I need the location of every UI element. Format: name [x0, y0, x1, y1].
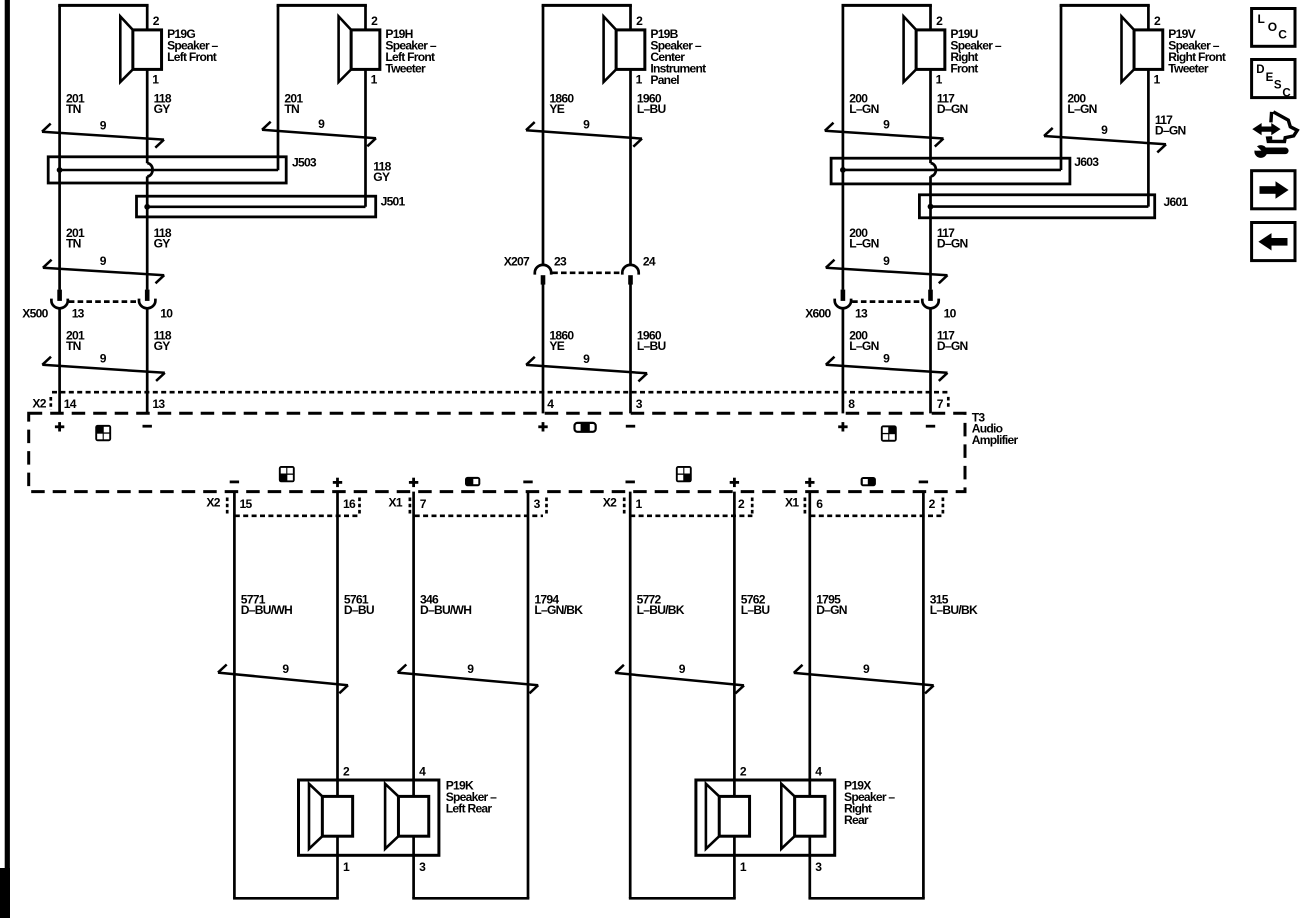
wire loop left rear B: [412, 897, 529, 900]
svg-text:9: 9: [679, 662, 686, 676]
amp plus right front: [838, 422, 847, 431]
svg-text:2: 2: [1154, 14, 1161, 28]
connector X207 pin 24: [622, 265, 638, 285]
label P19V title: [1168, 27, 1226, 76]
speaker icon front-left: [95, 425, 111, 441]
button next arrow: [1252, 171, 1295, 209]
connector X600 pin 13: [835, 290, 851, 309]
connector X2 right tick: [947, 397, 950, 409]
svg-text:1: 1: [636, 497, 643, 511]
svg-text:X207: X207: [504, 255, 530, 269]
label amp pin 7 top: [937, 397, 944, 411]
speaker P19G: [120, 16, 161, 82]
label amp pin 8 top: [848, 397, 855, 411]
splice J503: [48, 157, 286, 183]
svg-text:13: 13: [152, 397, 165, 411]
value label 117 D-GN row1 P19U: [937, 91, 968, 116]
value label 1960 L-BU row1 P19B: [637, 91, 666, 116]
svg-text:9: 9: [100, 118, 107, 132]
value label 200 L-GN row1 P19U: [849, 91, 878, 116]
value label 346 D–BU/WH: [420, 592, 471, 617]
label X1 bottom-left: [389, 496, 403, 510]
svg-text:9: 9: [282, 662, 289, 676]
twisted pair 9 row1 P19V: [1044, 123, 1166, 153]
svg-text:D–GN: D–GN: [1155, 124, 1186, 138]
wire top loop P19H: [277, 4, 367, 7]
value label 118 GY at J501 P19H: [373, 159, 391, 184]
label pin 24: [643, 255, 656, 269]
label X1 bottom-right: [785, 496, 799, 510]
connector X600 pin 10: [922, 290, 938, 309]
wire 1795 D-GN: [808, 492, 811, 899]
svg-text:4: 4: [419, 764, 426, 778]
label J503: [292, 156, 317, 170]
svg-text:D–BU/WH: D–BU/WH: [420, 603, 471, 617]
value label 1794 L–GN/BK: [534, 592, 583, 617]
value label 118 GY row3: [154, 329, 172, 354]
svg-text:J501: J501: [381, 195, 406, 209]
twisted pair 9 row1 P19H: [262, 117, 376, 146]
speaker P19B: [604, 16, 645, 82]
speaker icon front-right: [881, 425, 897, 441]
label P19K title: [446, 778, 497, 815]
wire 315 L-BU/BK: [922, 492, 925, 899]
svg-text:3: 3: [815, 860, 822, 874]
svg-text:13: 13: [72, 307, 85, 321]
amp plus left rear 2: [409, 478, 418, 487]
value label 118 GY row2 P19G: [154, 226, 172, 251]
svg-text:D–GN: D–GN: [937, 102, 968, 116]
wire 346 D-BU/WH: [412, 492, 415, 899]
amp minus right rear 2: [919, 481, 928, 484]
svg-text:9: 9: [883, 254, 890, 268]
wire top loop P19G: [58, 4, 148, 7]
amp minus left front: [143, 425, 152, 428]
value label 5762 L–BU: [741, 592, 770, 617]
wire 118 GY P19H right: [364, 5, 367, 206]
pin 1 label P19U: [936, 73, 943, 87]
svg-text:10: 10: [944, 307, 957, 321]
svg-text:1: 1: [371, 73, 378, 87]
svg-text:L–GN: L–GN: [849, 339, 878, 353]
label amp pin 16 bottom: [343, 497, 356, 511]
label J501: [381, 195, 406, 209]
svg-text:GY: GY: [373, 170, 390, 184]
pin 1 label P19H: [371, 73, 378, 87]
svg-text:Front: Front: [950, 62, 978, 76]
label amp pin 3 bottom: [534, 497, 541, 511]
svg-text:J603: J603: [1074, 155, 1099, 169]
label pin 23: [554, 255, 567, 269]
svg-text:8: 8: [848, 397, 855, 411]
svg-text:Panel: Panel: [650, 73, 679, 87]
svg-text:9: 9: [863, 662, 870, 676]
speaker P19K right driver: [385, 784, 429, 849]
svg-text:J503: J503: [292, 156, 317, 170]
wire 200 L-GN P19U left: [842, 5, 845, 413]
svg-text:6: 6: [816, 497, 823, 511]
svg-text:2: 2: [343, 764, 350, 778]
svg-text:GY: GY: [154, 237, 171, 251]
twisted pair 9 row1 P19U: [825, 118, 944, 147]
speaker P19X right driver: [781, 784, 825, 849]
value label 117 D-GN row3: [937, 329, 968, 354]
svg-text:L–BU/BK: L–BU/BK: [930, 603, 978, 617]
pin labels P19X: [740, 764, 822, 874]
svg-text:Tweeter: Tweeter: [1168, 62, 1209, 76]
connector X1 bottom-right bracket: [805, 498, 943, 516]
connector X500 pin 13: [51, 290, 67, 309]
wire 1794 L-GN/BK: [527, 492, 530, 899]
wire top loop P19V: [1060, 4, 1150, 7]
connector X2 top dotted line: [52, 391, 950, 394]
label X600 pin 13: [855, 307, 868, 321]
svg-text:Rear: Rear: [844, 813, 869, 827]
twisted pair 9 row2 right: [826, 254, 948, 283]
value label 5771 D–BU/WH: [241, 592, 292, 617]
label P19U title: [950, 27, 1001, 76]
svg-text:L–GN: L–GN: [1067, 102, 1096, 116]
amp minus center: [626, 425, 635, 428]
svg-text:Left Rear: Left Rear: [446, 802, 493, 816]
label X2 top: [32, 396, 46, 410]
wire 5761 D-BU: [336, 492, 339, 899]
svg-text:L–GN/BK: L–GN/BK: [534, 603, 583, 617]
svg-text:X600: X600: [805, 307, 831, 321]
svg-text:9: 9: [100, 254, 107, 268]
amp plus center: [538, 422, 547, 431]
svg-text:TN: TN: [284, 102, 299, 116]
twisted pair 9 row1 P19G: [42, 118, 164, 147]
button LOC: [1252, 9, 1295, 47]
amp plus right rear 2: [805, 478, 814, 487]
svg-text:3: 3: [534, 497, 541, 511]
label amp pin 3 top: [636, 397, 643, 411]
label amp pin 6 bottom: [816, 497, 823, 511]
svg-text:X500: X500: [22, 307, 48, 321]
svg-text:J601: J601: [1164, 195, 1189, 209]
connector X2 left tick: [49, 397, 52, 410]
value label 1960 L-BU row3: [637, 329, 666, 354]
wire loop left rear A: [233, 897, 339, 900]
wire top loop P19B: [542, 4, 632, 7]
speaker P19U: [904, 16, 945, 82]
wire 1960 L-BU P19B right: [629, 5, 632, 413]
svg-text:10: 10: [160, 307, 173, 321]
twisted pair 9 row2 left: [43, 254, 164, 283]
svg-text:D–GN: D–GN: [816, 603, 847, 617]
amp plus left front: [55, 422, 64, 431]
svg-text:2: 2: [740, 764, 747, 778]
svg-text:L–BU: L–BU: [637, 102, 666, 116]
button back arrow: [1252, 223, 1295, 261]
label X2 bottom-left: [206, 496, 220, 510]
label T3 Audio Amplifier: [972, 411, 1019, 447]
connector X1 bottom-left bracket: [410, 498, 547, 516]
pin 1 label P19V: [1154, 73, 1161, 87]
twisted pair 9 row1 P19B: [526, 117, 642, 146]
svg-text:1: 1: [936, 73, 943, 87]
value label 201 TN row1 P19H: [284, 91, 303, 116]
label X600 pin 10: [944, 307, 957, 321]
svg-text:2: 2: [371, 14, 378, 28]
svg-text:Left Front: Left Front: [167, 50, 217, 64]
wire 1860 YE P19B left: [542, 5, 545, 413]
svg-text:E: E: [1266, 72, 1274, 84]
svg-text:9: 9: [583, 117, 590, 131]
splice J601: [919, 195, 1154, 218]
svg-text:2: 2: [936, 14, 943, 28]
svg-text:GY: GY: [154, 339, 171, 353]
wire 5762 L-BU: [733, 492, 736, 899]
svg-text:2: 2: [636, 14, 643, 28]
pin 1 label P19G: [152, 73, 159, 87]
amp plus right rear: [730, 478, 739, 487]
svg-text:9: 9: [318, 117, 325, 131]
svg-text:GY: GY: [154, 102, 171, 116]
svg-text:15: 15: [240, 497, 253, 511]
label J601: [1164, 195, 1189, 209]
wire 5772 L-BU/BK: [629, 492, 632, 899]
svg-text:14: 14: [64, 397, 77, 411]
label P19G title: [167, 27, 218, 64]
pin labels P19K: [343, 764, 426, 874]
svg-text:2: 2: [929, 497, 936, 511]
label amp pin 7 bottom: [420, 497, 427, 511]
amp minus left rear 2: [523, 481, 532, 484]
svg-text:Amplifier: Amplifier: [972, 433, 1019, 447]
connector X2 bottom-right bracket: [624, 498, 752, 516]
svg-text:L–GN: L–GN: [849, 237, 878, 251]
value label 315 L–BU/BK: [930, 592, 978, 617]
connector X207 link: [552, 271, 621, 274]
svg-text:23: 23: [554, 255, 567, 269]
pin 2 label P19G: [153, 14, 160, 28]
speaker icon rear-right: [676, 466, 692, 482]
label amp pin 13 top: [152, 397, 165, 411]
connector X500 link: [69, 300, 138, 303]
label amp pin 2 bottom: [738, 497, 745, 511]
connector X207 pin 23: [535, 265, 551, 285]
value label 201 TN row1 P19G: [66, 91, 85, 116]
svg-text:1: 1: [1154, 73, 1161, 87]
svg-text:9: 9: [1101, 123, 1108, 137]
amp plus left rear: [333, 478, 342, 487]
value label 117 D-GN P19V right: [1155, 113, 1186, 138]
twisted pair 9 bottom 1: [218, 662, 348, 693]
svg-text:16: 16: [343, 497, 356, 511]
speaker icon rear pill left: [465, 477, 480, 486]
label X500: [22, 307, 48, 321]
twisted pair 9 bottom 4: [794, 662, 934, 693]
svg-text:7: 7: [937, 397, 944, 411]
connector X600 link: [852, 300, 921, 303]
svg-text:4: 4: [547, 397, 554, 411]
speaker icon rear-left: [279, 466, 295, 482]
speaker P19X left driver: [706, 784, 750, 849]
wire 200 L-GN P19V left: [1060, 5, 1063, 170]
label P19B title: [650, 27, 706, 87]
label X600: [805, 307, 831, 321]
svg-text:D–BU/WH: D–BU/WH: [241, 603, 292, 617]
svg-text:X1: X1: [389, 496, 403, 510]
label amp pin 15 bottom: [240, 497, 253, 511]
pin 2 label P19B: [636, 14, 643, 28]
svg-text:13: 13: [855, 307, 868, 321]
value label 5761 D–BU: [344, 592, 374, 617]
wire loop right rear A: [629, 897, 736, 900]
wire 117 D-GN P19V right: [1147, 5, 1150, 206]
speaker P19H: [339, 16, 380, 82]
wire 201 TN P19G left: [58, 5, 61, 413]
svg-text:9: 9: [467, 662, 474, 676]
hop GY wire over J503 bus: [147, 163, 152, 176]
connector X2 bottom-left bracket: [227, 498, 360, 516]
svg-text:YE: YE: [549, 102, 564, 116]
svg-text:3: 3: [636, 397, 643, 411]
value label 200 L-GN row2 P19U: [849, 226, 878, 251]
twisted pair 9 bottom 3: [615, 662, 744, 693]
twisted pair 9 row3 left: [42, 351, 165, 380]
wire 201 TN P19H left: [277, 5, 280, 170]
svg-text:C: C: [1278, 28, 1287, 42]
pin 1 label P19B: [636, 73, 643, 87]
svg-text:1: 1: [343, 860, 350, 874]
value label 5772 L–BU/BK: [637, 592, 685, 617]
speaker P19V: [1122, 16, 1163, 82]
svg-text:O: O: [1268, 20, 1277, 34]
svg-text:L: L: [1258, 12, 1265, 26]
svg-text:24: 24: [643, 255, 656, 269]
svg-text:X2: X2: [206, 496, 220, 510]
svg-text:D: D: [1256, 64, 1264, 76]
label X500 pin 10: [160, 307, 173, 321]
label amp pin 14 top: [64, 397, 77, 411]
svg-text:9: 9: [583, 352, 590, 366]
wire 5771 D-BU/WH: [233, 492, 236, 899]
svg-text:L–BU: L–BU: [741, 603, 770, 617]
svg-text:4: 4: [815, 764, 822, 778]
connector X500 pin 10: [139, 290, 155, 309]
wire 117 D-GN P19U right: [929, 5, 932, 413]
svg-text:YE: YE: [549, 339, 564, 353]
svg-text:D–GN: D–GN: [937, 237, 968, 251]
svg-text:9: 9: [883, 118, 890, 132]
wire top loop P19U: [842, 4, 932, 7]
svg-text:S: S: [1274, 80, 1282, 92]
hop D-GN wire over J603 bus: [931, 163, 936, 176]
label P19H title: [385, 27, 436, 76]
svg-text:1: 1: [636, 73, 643, 87]
label amp pin 1 bottom: [636, 497, 643, 511]
value label 1860 YE row3: [549, 329, 574, 354]
svg-text:X2: X2: [603, 496, 617, 510]
svg-text:1: 1: [740, 860, 747, 874]
svg-text:L–BU: L–BU: [637, 339, 666, 353]
label amp pin 2 bottom: [929, 497, 936, 511]
value label 201 TN row3: [66, 329, 85, 354]
label P19X title: [844, 778, 895, 827]
svg-text:1: 1: [152, 73, 159, 87]
value label 1795 D–GN: [816, 592, 847, 617]
svg-text:9: 9: [883, 352, 890, 366]
label X2 bottom-right: [603, 496, 617, 510]
svg-text:TN: TN: [66, 102, 81, 116]
icon schematic navigation: [1246, 112, 1297, 158]
svg-text:X2: X2: [32, 396, 46, 410]
svg-text:2: 2: [153, 14, 160, 28]
svg-text:3: 3: [419, 860, 426, 874]
speaker P19K left driver: [309, 784, 353, 849]
speaker box P19X: [696, 780, 835, 855]
button DESC: [1252, 60, 1295, 100]
pin 2 label P19V: [1154, 14, 1161, 28]
svg-text:2: 2: [738, 497, 745, 511]
amp minus left rear: [230, 481, 239, 484]
value label 200 L-GN row1 P19V: [1067, 91, 1096, 116]
label amp pin 4 top: [547, 397, 554, 411]
svg-text:D–BU: D–BU: [344, 603, 374, 617]
value label 200 L-GN row3: [849, 329, 878, 354]
svg-text:7: 7: [420, 497, 427, 511]
wire 118 GY P19G right: [146, 5, 149, 413]
page edge black bar: [0, 0, 10, 918]
speaker icon center: [575, 423, 596, 433]
label X207: [504, 255, 530, 269]
svg-text:TN: TN: [66, 339, 81, 353]
label X500 pin 13: [72, 307, 85, 321]
splice J603: [831, 158, 1070, 184]
value label 118 GY row1 P19G: [154, 91, 172, 116]
svg-text:Tweeter: Tweeter: [385, 62, 426, 76]
splice J501: [137, 196, 376, 217]
svg-text:C: C: [1282, 87, 1290, 99]
svg-text:TN: TN: [66, 237, 81, 251]
amp minus right front: [926, 425, 935, 428]
wire loop right rear B: [808, 897, 924, 900]
speaker box P19K: [299, 780, 439, 855]
pin 2 label P19U: [936, 14, 943, 28]
svg-text:X1: X1: [785, 496, 799, 510]
svg-text:D–GN: D–GN: [937, 339, 968, 353]
value label 201 TN row2 P19G: [66, 226, 85, 251]
value label 1860 YE row1 P19B: [549, 91, 574, 116]
label J603: [1074, 155, 1099, 169]
pin 2 label P19H: [371, 14, 378, 28]
svg-text:9: 9: [100, 351, 107, 365]
twisted pair 9 bottom 2: [398, 662, 539, 693]
amplifier T3 box: [29, 413, 965, 491]
twisted pair 9 row3 right: [826, 352, 948, 381]
value label 117 D-GN row2 P19U: [937, 226, 968, 251]
amp minus right rear: [626, 481, 635, 484]
svg-text:L–BU/BK: L–BU/BK: [637, 603, 685, 617]
twisted pair 9 row3 center: [526, 352, 647, 382]
svg-text:L–GN: L–GN: [849, 102, 878, 116]
speaker icon rear pill right: [861, 477, 876, 486]
